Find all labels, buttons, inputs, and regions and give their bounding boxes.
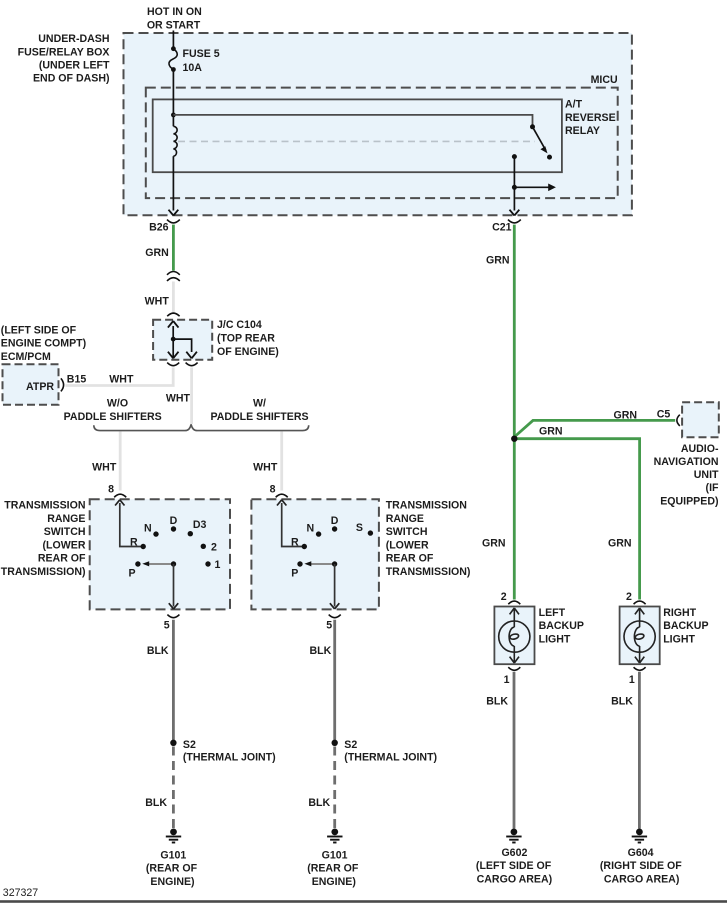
svg-text:GRN: GRN xyxy=(539,426,563,438)
svg-text:WHT: WHT xyxy=(253,462,278,474)
svg-text:2: 2 xyxy=(501,591,507,603)
svg-text:W/: W/ xyxy=(253,398,266,410)
ATPR box xyxy=(3,364,59,405)
svg-text:GRN: GRN xyxy=(145,247,169,259)
svg-text:OR START: OR START xyxy=(147,19,201,31)
svg-text:ATPR: ATPR xyxy=(26,381,54,393)
svg-text:(THERMAL JOINT): (THERMAL JOINT) xyxy=(183,752,276,764)
wire: junction to relay switch xyxy=(173,115,532,127)
svg-text:PADDLE SHIFTERS: PADDLE SHIFTERS xyxy=(64,411,162,423)
svg-text:RANGE: RANGE xyxy=(386,513,424,525)
left backup light xyxy=(494,607,534,665)
svg-text:LIGHT: LIGHT xyxy=(539,633,571,645)
wire: BLK dashed to G101 (right) xyxy=(333,747,336,829)
svg-text:(THERMAL JOINT): (THERMAL JOINT) xyxy=(344,752,437,764)
svg-text:TRANSMISSION: TRANSMISSION xyxy=(4,500,85,512)
svg-text:5: 5 xyxy=(164,620,170,632)
svg-text:PADDLE SHIFTERS: PADDLE SHIFTERS xyxy=(210,411,308,423)
transmission range switch (right) xyxy=(251,499,379,609)
svg-text:P: P xyxy=(129,568,136,580)
svg-text:W/O: W/O xyxy=(107,398,128,410)
svg-text:S2: S2 xyxy=(183,739,196,751)
svg-text:GRN: GRN xyxy=(608,538,632,550)
relay output contact xyxy=(512,154,517,159)
svg-text:LEFT: LEFT xyxy=(539,607,566,619)
under-dash fuse/relay box xyxy=(124,33,632,215)
wire: WHT from J/C right pin down to brace xyxy=(190,368,193,425)
svg-text:RELAY: RELAY xyxy=(565,125,600,137)
wire: coil down to B26 xyxy=(172,156,174,210)
svg-text:CARGO AREA): CARGO AREA) xyxy=(477,873,553,885)
wire: WHT drop to right range switch xyxy=(280,432,283,491)
left switch output to pin 5 xyxy=(173,564,175,607)
svg-text:B26: B26 xyxy=(149,222,169,234)
label: under-dash fuse/relay box xyxy=(18,33,110,85)
wire: BLK right light to G604 xyxy=(638,672,641,829)
pin 1 right light xyxy=(634,667,646,670)
ground G602 xyxy=(511,829,518,836)
A/T reverse relay box xyxy=(153,99,562,172)
svg-text:P: P xyxy=(291,568,298,580)
svg-text:R: R xyxy=(291,536,299,548)
svg-text:(REAR OF: (REAR OF xyxy=(307,863,359,875)
connector pin B26 xyxy=(167,220,180,223)
svg-text:GRN: GRN xyxy=(613,410,637,422)
svg-text:MICU: MICU xyxy=(591,74,618,86)
relay coil xyxy=(173,126,177,156)
connector pins below J/C xyxy=(167,363,179,366)
svg-text:G604: G604 xyxy=(628,847,654,859)
svg-text:(IF: (IF xyxy=(706,482,719,494)
svg-text:BLK: BLK xyxy=(486,696,508,708)
node: green junction xyxy=(511,436,517,442)
svg-text:BACKUP: BACKUP xyxy=(539,620,584,632)
svg-text:D: D xyxy=(170,515,178,527)
svg-text:TRANSMISSION): TRANSMISSION) xyxy=(1,566,86,578)
splice S2 (right) xyxy=(332,740,338,746)
svg-text:SWITCH: SWITCH xyxy=(386,526,428,538)
node: coil feed junction xyxy=(171,113,176,118)
svg-text:RANGE: RANGE xyxy=(47,513,85,525)
connector pin C21 xyxy=(508,220,521,223)
right switch contacts xyxy=(302,544,307,549)
svg-text:UNIT: UNIT xyxy=(694,469,719,481)
svg-text:BLK: BLK xyxy=(611,696,633,708)
svg-text:S2: S2 xyxy=(344,739,357,751)
svg-text:B15: B15 xyxy=(67,373,87,385)
splice S2 (left) xyxy=(170,740,176,746)
pin 1 left light xyxy=(508,667,520,670)
svg-text:BLK: BLK xyxy=(147,645,169,657)
svg-text:END OF DASH): END OF DASH) xyxy=(33,73,110,85)
svg-text:GRN: GRN xyxy=(486,255,510,267)
right switch wiper arm xyxy=(310,563,335,565)
bottom rule xyxy=(0,900,727,903)
svg-text:D3: D3 xyxy=(193,519,207,531)
arrow: C21 exit xyxy=(510,210,520,216)
svg-text:SWITCH: SWITCH xyxy=(44,526,86,538)
ground G604 xyxy=(636,829,643,836)
left switch: pin 8 feed with up arrow xyxy=(120,503,143,547)
svg-text:G101: G101 xyxy=(160,849,186,861)
svg-text:8: 8 xyxy=(270,483,276,495)
inline connector on left run xyxy=(167,272,180,275)
relay switch: moving arm with arrowhead xyxy=(533,127,546,150)
node: branch to other circuit xyxy=(512,185,517,190)
left switch contacts xyxy=(141,544,146,549)
relay switch: common contact xyxy=(530,124,535,129)
ground G101 (left) xyxy=(170,829,177,836)
wire: BLK right switch to S2 xyxy=(333,620,336,743)
svg-text:N: N xyxy=(307,523,315,535)
svg-text:2: 2 xyxy=(211,542,217,554)
transmission range switch (left) xyxy=(90,499,230,609)
svg-text:G602: G602 xyxy=(501,847,527,859)
right backup light xyxy=(620,607,660,665)
svg-text:8: 8 xyxy=(108,483,114,495)
svg-text:FUSE 5: FUSE 5 xyxy=(183,48,220,60)
svg-text:(LEFT SIDE OF: (LEFT SIDE OF xyxy=(1,324,77,336)
svg-text:HOT IN ON: HOT IN ON xyxy=(147,6,202,18)
svg-text:J/C C104: J/C C104 xyxy=(217,319,262,331)
svg-text:10A: 10A xyxy=(183,62,203,74)
svg-text:R: R xyxy=(130,536,138,548)
right switch output to pin 5 xyxy=(334,564,336,607)
svg-text:ENGINE COMPT): ENGINE COMPT) xyxy=(1,338,86,350)
svg-text:A/T: A/T xyxy=(565,99,583,111)
svg-text:(LEFT SIDE OF: (LEFT SIDE OF xyxy=(476,860,552,872)
svg-text:D: D xyxy=(331,515,339,527)
wire: GRN junction to right light xyxy=(514,439,639,600)
svg-text:N: N xyxy=(144,523,152,535)
svg-text:(REAR OF: (REAR OF xyxy=(146,863,198,875)
svg-text:BLK: BLK xyxy=(308,797,330,809)
connector at J/C C104 top xyxy=(167,313,179,316)
svg-text:1: 1 xyxy=(504,674,510,686)
svg-text:G101: G101 xyxy=(322,849,348,861)
svg-text:327327: 327327 xyxy=(3,887,38,899)
svg-text:RIGHT: RIGHT xyxy=(663,607,696,619)
pin 5 left xyxy=(167,615,179,618)
wire: BLK left switch to S2 xyxy=(172,620,175,743)
J/C internal bus xyxy=(172,326,174,358)
svg-text:ENGINE): ENGINE) xyxy=(312,876,356,888)
svg-text:1: 1 xyxy=(215,559,221,571)
svg-text:BACKUP: BACKUP xyxy=(663,620,708,632)
audio-navigation unit xyxy=(682,402,719,437)
wire: BLK dashed to G101 (left) xyxy=(172,747,175,829)
svg-text:UNDER-DASH: UNDER-DASH xyxy=(38,33,109,45)
wire: hot feed into fuse xyxy=(172,31,174,49)
pin 5 right xyxy=(329,615,341,618)
wire: GRN C21 down to junction xyxy=(513,225,516,439)
svg-text:TRANSMISSION): TRANSMISSION) xyxy=(386,566,471,578)
svg-text:5: 5 xyxy=(326,620,332,632)
relay switch: NO contact xyxy=(547,155,552,160)
MICU box xyxy=(146,88,618,199)
svg-text:LIGHT: LIGHT xyxy=(663,633,695,645)
svg-text:(RIGHT SIDE OF: (RIGHT SIDE OF xyxy=(600,860,682,872)
svg-text:BLK: BLK xyxy=(145,797,167,809)
svg-text:NAVIGATION: NAVIGATION xyxy=(654,456,719,468)
label: left range switch xyxy=(1,500,86,579)
svg-text:REAR OF: REAR OF xyxy=(38,553,86,565)
svg-text:OF ENGINE): OF ENGINE) xyxy=(217,346,279,358)
svg-text:C21: C21 xyxy=(492,222,512,234)
svg-text:AUDIO-: AUDIO- xyxy=(681,443,719,455)
wire: GRN branch to C5 xyxy=(514,420,675,437)
label: right range switch xyxy=(386,500,471,579)
svg-text:(TOP REAR: (TOP REAR xyxy=(217,333,275,345)
svg-text:REVERSE: REVERSE xyxy=(565,112,616,124)
svg-text:FUSE/RELAY BOX: FUSE/RELAY BOX xyxy=(18,46,110,58)
wire: branch arrow right xyxy=(514,186,549,188)
wire: WHT to J/C C104 xyxy=(172,282,175,313)
svg-text:(UNDER LEFT: (UNDER LEFT xyxy=(39,60,110,72)
svg-text:WHT: WHT xyxy=(109,373,134,385)
wire: GRN from B26 xyxy=(172,225,175,271)
svg-text:1: 1 xyxy=(629,674,635,686)
connector pin B15 xyxy=(61,378,64,391)
wire: GRN junction down to left light xyxy=(513,439,516,600)
svg-text:(LOWER: (LOWER xyxy=(43,539,86,551)
mechanical link (dashed) xyxy=(178,140,535,142)
svg-text:GRN: GRN xyxy=(482,538,506,550)
junction connector J/C C104 xyxy=(153,320,212,360)
arrow: B26 exit xyxy=(169,210,179,216)
svg-text:2: 2 xyxy=(626,591,632,603)
fuse FUSE 5 10A xyxy=(171,46,176,51)
distribution brace xyxy=(94,424,309,430)
right switch: pin 8 feed with up arrow xyxy=(282,503,305,547)
wire: WHT drop to left range switch xyxy=(119,432,122,491)
wire: WHT from ATPR to J/C left pin xyxy=(66,368,174,386)
wire: BLK left light to G602 xyxy=(513,672,516,829)
svg-text:REAR OF: REAR OF xyxy=(386,553,434,565)
svg-text:ENGINE): ENGINE) xyxy=(150,876,194,888)
svg-text:EQUIPPED): EQUIPPED) xyxy=(660,495,718,507)
wire: relay output down to C21 xyxy=(513,157,515,211)
svg-text:BLK: BLK xyxy=(310,645,332,657)
wire: fuse to relay coil xyxy=(172,70,174,127)
ground G101 (right) xyxy=(331,829,338,836)
svg-text:C5: C5 xyxy=(657,409,671,421)
svg-text:WHT: WHT xyxy=(166,393,191,405)
left switch wiper arm xyxy=(148,563,174,565)
svg-text:WHT: WHT xyxy=(92,462,117,474)
svg-text:(LOWER: (LOWER xyxy=(386,539,429,551)
svg-text:WHT: WHT xyxy=(145,296,170,308)
svg-text:CARGO AREA): CARGO AREA) xyxy=(604,873,680,885)
svg-text:S: S xyxy=(356,522,363,534)
svg-text:TRANSMISSION: TRANSMISSION xyxy=(386,500,467,512)
svg-text:ECM/PCM: ECM/PCM xyxy=(1,351,51,363)
